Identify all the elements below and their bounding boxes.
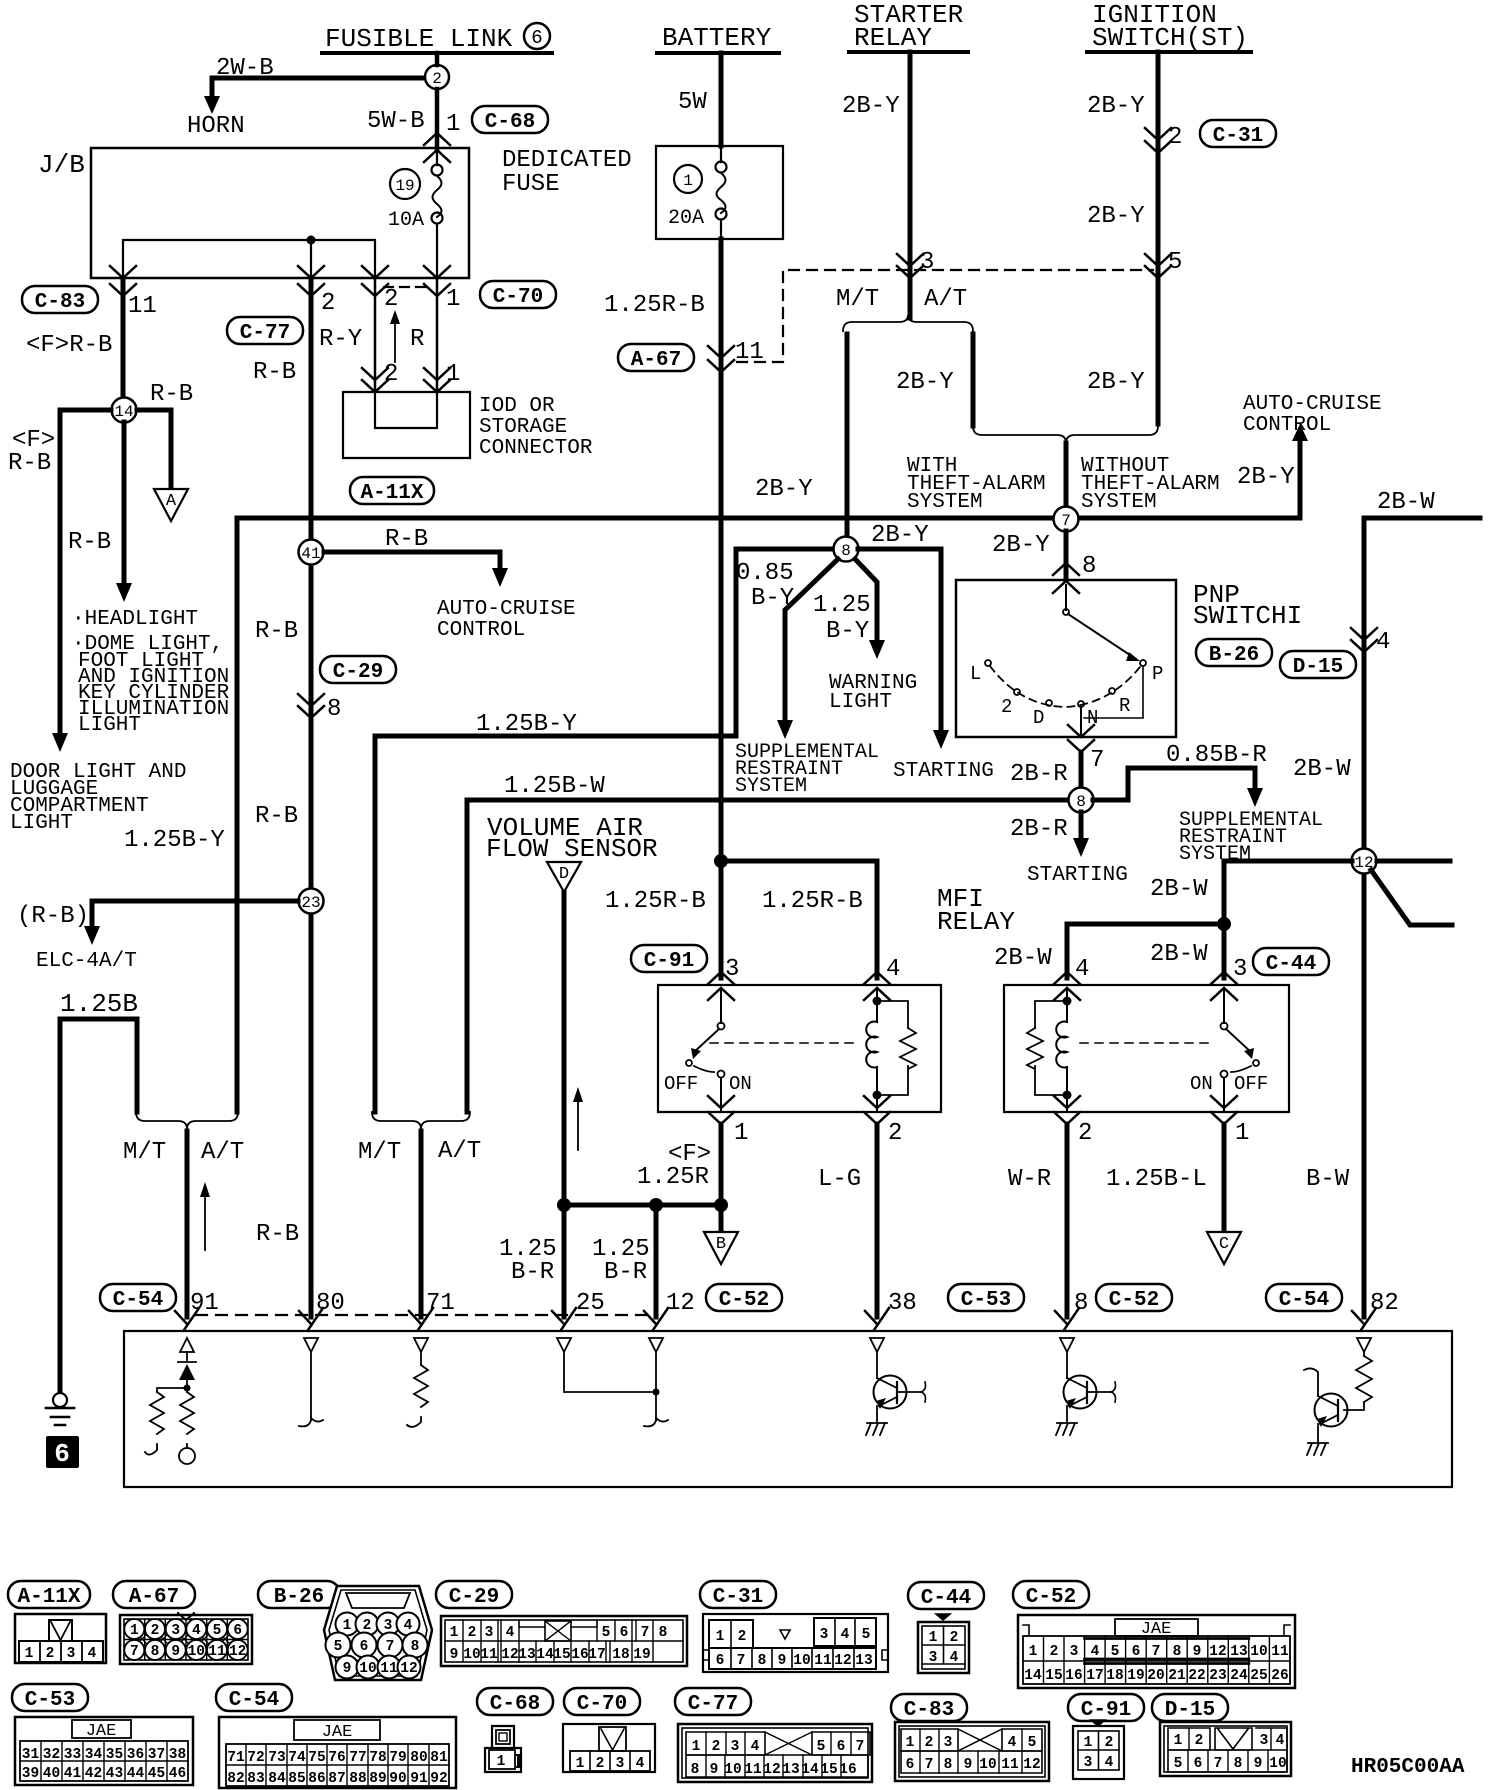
svg-text:L-G: L-G bbox=[818, 1166, 861, 1193]
svg-text:A/T: A/T bbox=[201, 1139, 244, 1166]
connector drawing C-77 bbox=[678, 1724, 872, 1782]
label AUTO-CRUISE CONTROL left bbox=[437, 598, 576, 642]
wire right relay pin2 W-R bbox=[1065, 1124, 1070, 1317]
svg-text:3: 3 bbox=[384, 1618, 393, 1634]
svg-text:FUSIBLE LINK: FUSIBLE LINK bbox=[325, 24, 513, 54]
svg-text:1: 1 bbox=[450, 1625, 459, 1641]
svg-text:1: 1 bbox=[1235, 1120, 1249, 1147]
svg-text:STARTING: STARTING bbox=[1027, 864, 1128, 887]
connector marks C-91 pins bbox=[708, 972, 734, 1000]
svg-text:36: 36 bbox=[127, 1747, 144, 1763]
svg-text:9: 9 bbox=[171, 1644, 180, 1660]
label MFI RELAY bbox=[937, 884, 1015, 937]
svg-text:12: 12 bbox=[1209, 1644, 1226, 1660]
brace lower-mid M/T A/T bbox=[372, 1112, 470, 1129]
svg-text:37: 37 bbox=[148, 1747, 165, 1763]
svg-text:31: 31 bbox=[22, 1747, 40, 1763]
svg-text:8: 8 bbox=[841, 542, 851, 560]
svg-text:14: 14 bbox=[801, 1762, 819, 1778]
wire right relay pin1 to triangle C bbox=[1222, 1124, 1227, 1232]
arrow to door light bbox=[52, 733, 68, 752]
connector tag B-26 bbox=[1196, 639, 1272, 667]
svg-text:71: 71 bbox=[227, 1750, 245, 1766]
label door light bbox=[10, 761, 186, 835]
connector drawing C-83 bbox=[895, 1722, 1049, 1781]
svg-text:7: 7 bbox=[1061, 512, 1071, 530]
svg-text:2: 2 bbox=[468, 1625, 477, 1641]
svg-text:7: 7 bbox=[737, 1653, 746, 1669]
junction dots 1.25R bus bbox=[557, 1198, 571, 1212]
svg-text:8: 8 bbox=[151, 1644, 160, 1660]
svg-text:7: 7 bbox=[130, 1644, 139, 1660]
ECU pin71 resistor bbox=[407, 1352, 428, 1427]
svg-text:11: 11 bbox=[128, 293, 157, 320]
connector marks right relay bottom pins bbox=[1054, 1096, 1080, 1124]
svg-text:80: 80 bbox=[410, 1750, 427, 1766]
svg-text:11: 11 bbox=[480, 1647, 498, 1663]
svg-text:42: 42 bbox=[85, 1766, 102, 1782]
svg-text:10: 10 bbox=[1250, 1644, 1267, 1660]
wire label WITHOUT THEFT-ALARM SYSTEM bbox=[1081, 455, 1220, 514]
svg-text:7: 7 bbox=[386, 1639, 395, 1655]
svg-text:(R-B): (R-B) bbox=[17, 903, 89, 930]
svg-text:15: 15 bbox=[553, 1647, 570, 1663]
connector mark ignition pin 5 bbox=[1145, 254, 1171, 278]
label VOLUME AIR FLOW SENSOR bbox=[486, 813, 658, 864]
svg-text:2B-W: 2B-W bbox=[1377, 489, 1435, 516]
svg-text:82: 82 bbox=[1370, 1290, 1399, 1317]
svg-text:1: 1 bbox=[446, 111, 460, 138]
svg-text:D-15: D-15 bbox=[1293, 656, 1343, 679]
svg-text:AUTO-CRUISE: AUTO-CRUISE bbox=[437, 598, 576, 621]
svg-text:2B-W: 2B-W bbox=[1293, 756, 1351, 783]
label WARNING LIGHT bbox=[829, 672, 917, 714]
svg-text:11: 11 bbox=[1001, 1757, 1019, 1773]
connector tag C-29 bbox=[320, 656, 396, 684]
svg-text:SYSTEM: SYSTEM bbox=[907, 491, 983, 514]
svg-text:8: 8 bbox=[1234, 1756, 1243, 1772]
svg-text:LIGHT: LIGHT bbox=[10, 812, 73, 835]
svg-text:4: 4 bbox=[1091, 1644, 1100, 1660]
connector tag C-91 bottom bbox=[1068, 1694, 1144, 1722]
right relay resistor bbox=[1027, 1001, 1067, 1095]
svg-text:5: 5 bbox=[1028, 1735, 1037, 1751]
svg-text:2B-Y: 2B-Y bbox=[1087, 203, 1145, 230]
wire 1.25B staple to ground and M/T leg bbox=[60, 1019, 137, 1390]
dashed ignition ST feed line bbox=[737, 270, 1153, 362]
svg-text:C-53: C-53 bbox=[25, 1689, 75, 1712]
svg-text:10: 10 bbox=[188, 1644, 205, 1660]
wire junction8 to warning light bbox=[855, 559, 885, 659]
ECU pin25 wire to pin12 bbox=[564, 1352, 656, 1392]
svg-text:OFF: OFF bbox=[664, 1073, 698, 1095]
svg-text:2: 2 bbox=[384, 286, 398, 313]
svg-text:R-B: R-B bbox=[68, 529, 111, 556]
svg-text:2B-R: 2B-R bbox=[1010, 761, 1068, 788]
connector tag C-77 bottom bbox=[675, 1688, 751, 1716]
svg-text:72: 72 bbox=[247, 1750, 264, 1766]
svg-text:B-R: B-R bbox=[511, 1259, 554, 1286]
svg-text:6: 6 bbox=[1132, 1644, 1141, 1660]
svg-text:4: 4 bbox=[751, 1739, 760, 1755]
svg-text:10: 10 bbox=[724, 1762, 741, 1778]
svg-text:C-68: C-68 bbox=[485, 111, 535, 134]
svg-text:78: 78 bbox=[369, 1750, 386, 1766]
svg-text:9: 9 bbox=[343, 1661, 352, 1677]
svg-text:4: 4 bbox=[1376, 629, 1390, 656]
svg-text:C-29: C-29 bbox=[333, 661, 383, 684]
svg-text:13: 13 bbox=[1230, 1644, 1247, 1660]
svg-text:87: 87 bbox=[328, 1771, 345, 1787]
svg-text:R: R bbox=[1119, 695, 1130, 717]
direction arrow up IOD bbox=[390, 310, 400, 362]
svg-text:6: 6 bbox=[233, 1623, 242, 1639]
svg-text:D: D bbox=[1033, 707, 1044, 729]
svg-text:5: 5 bbox=[1168, 249, 1182, 276]
wire 1.25B-W bus to junction 8b bbox=[467, 800, 1069, 1112]
svg-text:12: 12 bbox=[1023, 1757, 1040, 1773]
svg-text:C-77: C-77 bbox=[240, 322, 290, 345]
svg-text:M/T: M/T bbox=[358, 1139, 401, 1166]
left relay coil link dashed bbox=[710, 1042, 860, 1044]
connector tag C-44 bottom bbox=[908, 1582, 984, 1610]
wire left relay pin1 1.25R bbox=[719, 1124, 724, 1205]
connector tag B-26 bottom bbox=[258, 1581, 340, 1609]
triangle ref D volume air flow sensor bbox=[547, 862, 581, 892]
ECU pin82 input triangle bbox=[1357, 1338, 1371, 1352]
svg-text:C-53: C-53 bbox=[961, 1289, 1011, 1312]
svg-text:7: 7 bbox=[1152, 1644, 1161, 1660]
svg-text:ON: ON bbox=[1190, 1073, 1213, 1095]
wire A/T branch 2B-Y bbox=[971, 334, 976, 426]
svg-text:15: 15 bbox=[1045, 1668, 1062, 1684]
connector tag C-68 bbox=[472, 106, 548, 134]
svg-text:25: 25 bbox=[1250, 1668, 1267, 1684]
wire junction8 to SRS left bbox=[777, 559, 838, 739]
svg-text:2: 2 bbox=[1078, 1120, 1092, 1147]
svg-text:6: 6 bbox=[54, 1439, 70, 1469]
svg-text:74: 74 bbox=[288, 1750, 306, 1766]
svg-text:3: 3 bbox=[929, 1650, 938, 1666]
svg-text:39: 39 bbox=[22, 1766, 39, 1782]
direction arrow up VAFS wire bbox=[573, 1087, 583, 1150]
brace lower merge bbox=[973, 426, 1158, 443]
svg-text:1: 1 bbox=[446, 361, 460, 388]
svg-text:2B-Y: 2B-Y bbox=[896, 369, 954, 396]
wire ignition switch down bbox=[1156, 52, 1161, 424]
svg-text:C-83: C-83 bbox=[904, 1699, 954, 1722]
wire junction12 left to relay feed bbox=[1224, 861, 1352, 978]
svg-text:8: 8 bbox=[1076, 793, 1086, 811]
connector marks left relay bottom pins bbox=[708, 1096, 734, 1124]
svg-text:ELC-4A/T: ELC-4A/T bbox=[36, 950, 137, 973]
svg-text:4: 4 bbox=[886, 956, 900, 983]
wire R-Y J/B to IOD pin2 bbox=[374, 278, 377, 392]
connector drawing C-68 bbox=[485, 1726, 521, 1772]
svg-text:17: 17 bbox=[588, 1647, 605, 1663]
svg-text:SWITCHI: SWITCHI bbox=[1193, 601, 1302, 631]
svg-text:2B-Y: 2B-Y bbox=[1087, 93, 1145, 120]
svg-text:23: 23 bbox=[1209, 1668, 1226, 1684]
svg-text:CONTROL: CONTROL bbox=[1243, 414, 1331, 437]
svg-text:W-R: W-R bbox=[1008, 1166, 1051, 1193]
svg-text:32: 32 bbox=[43, 1747, 60, 1763]
wire VAFS down to pin 25 bbox=[562, 892, 567, 1317]
connector mark C-31 pin 2 bbox=[1145, 128, 1171, 153]
connector mark A-67 pin 11 bbox=[708, 346, 734, 372]
svg-text:34: 34 bbox=[85, 1747, 103, 1763]
ECU pin71 input triangle bbox=[414, 1338, 428, 1352]
connector mark D-15 pin 4 bbox=[1351, 628, 1377, 652]
connector tag A-11X bottom bbox=[8, 1581, 90, 1609]
arrow to headlight bbox=[116, 583, 132, 602]
svg-text:26: 26 bbox=[1271, 1668, 1288, 1684]
wire label 1.25 B-R right bbox=[592, 1236, 650, 1286]
svg-text:DEDICATED: DEDICATED bbox=[502, 147, 632, 174]
wire junction8b to starting bbox=[1073, 812, 1089, 857]
node STARTER RELAY title bbox=[849, 0, 968, 53]
svg-text:16: 16 bbox=[1065, 1668, 1082, 1684]
svg-text:5: 5 bbox=[1111, 1644, 1120, 1660]
wire junction14 right branch to triangle A bbox=[137, 410, 171, 489]
svg-text:B-26: B-26 bbox=[274, 1586, 324, 1609]
svg-text:4: 4 bbox=[88, 1646, 97, 1662]
svg-text:B-Y: B-Y bbox=[751, 585, 794, 612]
svg-text:15: 15 bbox=[820, 1762, 837, 1778]
svg-text:3: 3 bbox=[1070, 1644, 1079, 1660]
svg-text:RELAY: RELAY bbox=[937, 907, 1015, 937]
left relay coil bbox=[866, 990, 881, 1100]
svg-text:41: 41 bbox=[301, 545, 320, 563]
label M/T A/T upper bbox=[836, 286, 967, 313]
svg-text:0.85B-R: 0.85B-R bbox=[1166, 742, 1267, 769]
svg-text:A-11X: A-11X bbox=[360, 482, 423, 505]
svg-text:9: 9 bbox=[1254, 1756, 1263, 1772]
ECU pin91 input triangle bbox=[180, 1338, 194, 1352]
main horizontal wire 2B-Y bus bbox=[237, 516, 1300, 521]
svg-text:25: 25 bbox=[576, 1290, 605, 1317]
svg-text:2: 2 bbox=[925, 1735, 934, 1751]
connector drawing C-52 bbox=[1018, 1615, 1295, 1688]
svg-text:2: 2 bbox=[1050, 1644, 1059, 1660]
ground symbol bottom left bbox=[46, 1393, 74, 1425]
svg-text:18: 18 bbox=[612, 1647, 629, 1663]
svg-text:3: 3 bbox=[1084, 1755, 1093, 1771]
svg-text:CONTROL: CONTROL bbox=[437, 619, 525, 642]
left relay switch bbox=[664, 990, 752, 1112]
triangle ref B bbox=[704, 1232, 738, 1264]
svg-text:2: 2 bbox=[321, 290, 335, 317]
svg-text:2: 2 bbox=[950, 1630, 959, 1646]
svg-text:17: 17 bbox=[1086, 1668, 1103, 1684]
svg-text:5W-B: 5W-B bbox=[367, 108, 425, 135]
svg-text:2: 2 bbox=[1105, 1735, 1114, 1751]
svg-text:RELAY: RELAY bbox=[854, 23, 932, 53]
svg-text:IOD OR: IOD OR bbox=[479, 395, 555, 418]
svg-text:33: 33 bbox=[64, 1747, 81, 1763]
ECU pin12 input triangle bbox=[649, 1338, 663, 1352]
svg-text:2: 2 bbox=[46, 1646, 55, 1662]
svg-text:46: 46 bbox=[169, 1766, 186, 1782]
connector tag C-70 bottom bbox=[564, 1688, 640, 1716]
svg-text:1: 1 bbox=[716, 1629, 725, 1645]
svg-text:5: 5 bbox=[334, 1639, 343, 1655]
svg-text:2: 2 bbox=[712, 1739, 721, 1755]
svg-text:2B-Y: 2B-Y bbox=[992, 532, 1050, 559]
svg-text:9: 9 bbox=[1193, 1644, 1202, 1660]
svg-text:B-R: B-R bbox=[604, 1259, 647, 1286]
svg-text:12: 12 bbox=[400, 1661, 417, 1677]
svg-text:2: 2 bbox=[1001, 696, 1012, 718]
svg-text:3: 3 bbox=[820, 1627, 829, 1643]
svg-text:4: 4 bbox=[636, 1756, 645, 1772]
ECU box bbox=[124, 1331, 1452, 1487]
svg-text:C-70: C-70 bbox=[493, 286, 543, 309]
svg-text:C-91: C-91 bbox=[1081, 1699, 1131, 1722]
ECU pin91 zener diode bbox=[178, 1352, 196, 1385]
connector mark C-68 on wire bbox=[424, 133, 450, 162]
svg-text:2B-W: 2B-W bbox=[1150, 876, 1208, 903]
svg-text:13: 13 bbox=[855, 1653, 872, 1669]
svg-text:11: 11 bbox=[814, 1653, 832, 1669]
svg-text:22: 22 bbox=[1188, 1668, 1205, 1684]
svg-text:2B-Y: 2B-Y bbox=[871, 522, 929, 549]
svg-text:C-83: C-83 bbox=[35, 291, 85, 314]
svg-text:85: 85 bbox=[288, 1771, 305, 1787]
svg-text:R-B: R-B bbox=[256, 1221, 299, 1248]
svg-text:C-68: C-68 bbox=[490, 1693, 540, 1716]
connector mark starter pin 3 bbox=[897, 254, 923, 278]
svg-text:35: 35 bbox=[106, 1747, 123, 1763]
relay box MFI right bbox=[1004, 985, 1289, 1112]
svg-text:L: L bbox=[970, 663, 981, 685]
svg-text:12: 12 bbox=[501, 1647, 518, 1663]
svg-text:SYSTEM: SYSTEM bbox=[735, 775, 807, 798]
svg-text:A: A bbox=[166, 492, 177, 511]
svg-text:8: 8 bbox=[758, 1653, 767, 1669]
wire label <F> 1.25R bbox=[637, 1141, 711, 1191]
connector tag C-29 bottom bbox=[436, 1581, 512, 1609]
svg-text:7: 7 bbox=[1214, 1756, 1223, 1772]
svg-text:1: 1 bbox=[25, 1646, 34, 1662]
svg-text:88: 88 bbox=[349, 1771, 366, 1787]
svg-text:1: 1 bbox=[734, 1120, 748, 1147]
svg-text:1.25B-W: 1.25B-W bbox=[504, 773, 605, 800]
svg-text:1: 1 bbox=[1174, 1733, 1183, 1749]
svg-text:2B-Y: 2B-Y bbox=[755, 476, 813, 503]
svg-text:11: 11 bbox=[744, 1762, 762, 1778]
svg-text:12: 12 bbox=[763, 1762, 780, 1778]
svg-text:1: 1 bbox=[343, 1618, 352, 1634]
svg-text:8: 8 bbox=[691, 1762, 700, 1778]
svg-text:3: 3 bbox=[1233, 956, 1247, 983]
svg-text:10: 10 bbox=[359, 1661, 376, 1677]
connector tag C-31 bbox=[1200, 120, 1276, 148]
svg-text:6: 6 bbox=[716, 1653, 725, 1669]
svg-text:A-11X: A-11X bbox=[17, 1586, 80, 1609]
junction circle 8b bbox=[1069, 788, 1094, 813]
svg-text:20A: 20A bbox=[668, 207, 704, 230]
svg-text:16: 16 bbox=[839, 1762, 856, 1778]
svg-text:C-77: C-77 bbox=[688, 1693, 738, 1716]
junction dot 2B-W branch bbox=[1217, 917, 1231, 931]
ECU pin82 transistor bbox=[1304, 1368, 1348, 1455]
svg-text:2B-W: 2B-W bbox=[994, 945, 1052, 972]
left relay pin2 internal bbox=[876, 1068, 878, 1112]
svg-text:6: 6 bbox=[837, 1739, 846, 1755]
svg-text:19: 19 bbox=[1127, 1668, 1144, 1684]
wire to triangle B bbox=[719, 1205, 724, 1232]
svg-text:FUSE: FUSE bbox=[502, 171, 560, 198]
svg-text:C-52: C-52 bbox=[1026, 1586, 1076, 1609]
svg-text:R: R bbox=[410, 326, 424, 353]
svg-text:38: 38 bbox=[169, 1747, 186, 1763]
svg-text:6: 6 bbox=[1194, 1756, 1203, 1772]
svg-text:C-91: C-91 bbox=[644, 950, 694, 973]
svg-text:1: 1 bbox=[576, 1756, 585, 1772]
svg-text:3: 3 bbox=[920, 249, 934, 276]
wire junction14 left branch to door light bbox=[60, 410, 111, 735]
connector drawing C-91 bbox=[1073, 1720, 1124, 1779]
svg-text:3: 3 bbox=[171, 1623, 180, 1639]
svg-text:P: P bbox=[1152, 663, 1163, 685]
svg-text:2B-W: 2B-W bbox=[1150, 941, 1208, 968]
svg-text:D: D bbox=[559, 865, 569, 884]
svg-text:84: 84 bbox=[268, 1771, 286, 1787]
label SUPPLEMENTAL RESTRAINT SYSTEM right bbox=[1179, 809, 1323, 866]
svg-text:JAE: JAE bbox=[86, 1722, 117, 1741]
svg-text:3: 3 bbox=[731, 1739, 740, 1755]
svg-text:·HEADLIGHT: ·HEADLIGHT bbox=[72, 608, 198, 631]
svg-text:HR05C00AA: HR05C00AA bbox=[1351, 1756, 1465, 1779]
svg-text:LIGHT: LIGHT bbox=[829, 691, 892, 714]
right relay coil bbox=[1056, 990, 1071, 1100]
connector drawing C-53 bbox=[15, 1717, 193, 1785]
wire (R-B) to ELC-4A/T bbox=[17, 901, 298, 973]
svg-text:12: 12 bbox=[666, 1290, 695, 1317]
wire R-B to auto-cruise bbox=[324, 526, 508, 587]
ECU pin38 input triangle bbox=[870, 1338, 884, 1352]
svg-text:STARTING: STARTING bbox=[893, 760, 994, 783]
svg-text:C-52: C-52 bbox=[1109, 1289, 1159, 1312]
svg-text:10: 10 bbox=[979, 1757, 996, 1773]
junction block J/B box bbox=[38, 148, 469, 278]
svg-text:2: 2 bbox=[384, 361, 398, 388]
label DEDICATED FUSE bbox=[502, 147, 632, 198]
connector tag C-83 bbox=[22, 286, 98, 314]
svg-text:2: 2 bbox=[1168, 124, 1182, 151]
svg-text:75: 75 bbox=[308, 1750, 325, 1766]
svg-text:43: 43 bbox=[106, 1766, 123, 1782]
triangle ref A bbox=[154, 489, 188, 521]
svg-text:C: C bbox=[1219, 1235, 1229, 1254]
svg-text:83: 83 bbox=[247, 1771, 264, 1787]
svg-text:92: 92 bbox=[430, 1771, 447, 1787]
svg-text:76: 76 bbox=[328, 1750, 345, 1766]
svg-text:1.25R: 1.25R bbox=[637, 1164, 709, 1191]
svg-text:FLOW SENSOR: FLOW SENSOR bbox=[486, 834, 658, 864]
svg-text:44: 44 bbox=[127, 1766, 145, 1782]
svg-text:4: 4 bbox=[1105, 1755, 1114, 1771]
svg-text:1.25B-Y: 1.25B-Y bbox=[476, 711, 577, 738]
svg-text:5W: 5W bbox=[678, 89, 707, 116]
svg-text:8: 8 bbox=[411, 1639, 420, 1655]
svg-text:5: 5 bbox=[1174, 1756, 1183, 1772]
svg-text:73: 73 bbox=[268, 1750, 285, 1766]
connector marks at J/B bottom edge bbox=[110, 266, 136, 296]
ECU pin12 wire and junction bbox=[644, 1352, 668, 1426]
svg-text:4: 4 bbox=[506, 1625, 515, 1641]
